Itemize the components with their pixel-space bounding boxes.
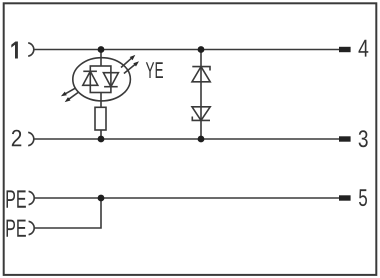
- socket contact PE top: [29, 191, 35, 204]
- wire PE line: [34, 197, 339, 199]
- pin label 2: [12, 130, 21, 147]
- pin label PE (top): [7, 190, 26, 207]
- wire line 1: [34, 49, 340, 51]
- pin label PE (bottom): [7, 220, 26, 237]
- LED light arrow upper-right 1: [121, 55, 135, 68]
- terminal pin 4: [339, 47, 351, 52]
- LED light arrow upper-right 2: [124, 61, 139, 73]
- junction line2 / suppressor branch: [198, 136, 205, 143]
- LED diode right (cathode down): [103, 73, 118, 87]
- junction line2 / LED branch: [98, 136, 105, 143]
- wire line 2: [34, 138, 340, 140]
- zener diode top (cathode up): [192, 67, 210, 82]
- socket contact pin 1: [28, 43, 34, 56]
- pin label 1: [11, 42, 18, 59]
- socket contact pin 2: [28, 132, 34, 145]
- LED internal loop: [90, 66, 111, 93]
- pin label 5: [359, 189, 367, 206]
- pin label 3: [359, 130, 368, 147]
- wire PE bottom to riser: [34, 198, 101, 228]
- socket contact PE bottom: [29, 221, 35, 234]
- LED diode left (cathode up): [83, 71, 98, 85]
- terminal pin 5: [339, 195, 351, 200]
- LED light arrow lower-left 1: [61, 88, 76, 96]
- junction line1 / LED branch: [98, 46, 105, 53]
- label YE: [146, 62, 163, 78]
- wire LED branch drop: [100, 50, 102, 67]
- pin label 4: [359, 40, 369, 57]
- terminal pin 3: [339, 136, 351, 141]
- zener diode bottom (cathode down): [192, 107, 210, 121]
- wire resistor to line 2: [100, 130, 102, 139]
- wire LED to resistor: [100, 93, 102, 108]
- wire suppressor branch: [200, 50, 202, 140]
- resistor R1: [95, 107, 106, 130]
- LED light arrow lower-left 2: [65, 92, 79, 102]
- junction PE node: [98, 195, 105, 202]
- junction line1 / suppressor branch: [198, 46, 205, 53]
- LED U1 envelope (ellipse): [73, 58, 131, 101]
